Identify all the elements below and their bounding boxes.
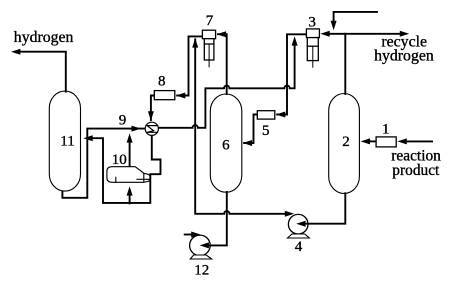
exchanger 5 bbox=[257, 111, 275, 119]
pump 4 bbox=[288, 214, 308, 234]
svg-text:1: 1 bbox=[382, 122, 390, 138]
wire hydrogen offgas from vessel 11 top bbox=[21, 52, 66, 92]
exchanger 8 bbox=[154, 91, 175, 100]
wire condenser 7 junction down to exchanger 8 bbox=[177, 36, 202, 95]
wire exchanger 9 outlet up to condenser 3 junction bbox=[158, 45, 294, 128]
wire makeup hydrogen feed bbox=[334, 12, 377, 22]
svg-text:3: 3 bbox=[308, 14, 316, 30]
svg-text:hydrogen: hydrogen bbox=[374, 47, 434, 64]
wire vessel 6 bottom to pump 12 bbox=[208, 192, 226, 245]
svg-text:2: 2 bbox=[342, 134, 350, 150]
svg-text:7: 7 bbox=[206, 13, 214, 29]
svg-text:5: 5 bbox=[262, 123, 270, 139]
wire exchanger 8 outlet down into exchanger 9 bbox=[151, 96, 155, 121]
svg-text:8: 8 bbox=[158, 74, 166, 90]
wire circulation loop 10 back to vessel 11 bbox=[92, 136, 161, 203]
unit 1 bbox=[376, 137, 396, 147]
svg-text:6: 6 bbox=[222, 137, 230, 153]
wire vessel 11 bottom to exchanger 9 (line 9) bbox=[62, 129, 144, 198]
svg-text:4: 4 bbox=[295, 239, 303, 255]
svg-text:11: 11 bbox=[60, 134, 74, 150]
vessel 11 bbox=[49, 91, 80, 191]
svg-text:hydrogen: hydrogen bbox=[14, 29, 74, 46]
flash unit 10 bbox=[107, 167, 151, 183]
arrow into unit 10 bottom bbox=[129, 196, 131, 204]
wire reaction product feed into unit 1 bbox=[407, 140, 432, 142]
wire exchanger 5 outlet to vessel 6 bbox=[244, 115, 257, 144]
vessel 6 bbox=[210, 94, 242, 192]
condenser 7 bbox=[202, 30, 215, 67]
condenser 3 bbox=[306, 29, 319, 67]
wire recycle hydrogen header bbox=[329, 33, 400, 35]
wire condenser 3 junction down to exchanger 5 bbox=[277, 34, 306, 114]
wire vessel 2 riser bbox=[344, 34, 346, 94]
wire riser to condenser 7 junction and across to pump 4 bbox=[195, 39, 285, 214]
arrow vapor from unit 10 up to line 9 bbox=[129, 143, 131, 167]
svg-text:9: 9 bbox=[119, 113, 127, 129]
pump 12 bbox=[190, 235, 211, 256]
heat exchanger 9 bbox=[145, 122, 158, 135]
wire unit 1 to vessel 2 bbox=[370, 140, 376, 142]
svg-text:product: product bbox=[392, 162, 440, 179]
pump 12 discharge arrow bbox=[185, 234, 193, 236]
wire vessel 6 top to condenser 7 bbox=[218, 34, 227, 94]
vessel 2 bbox=[329, 94, 360, 194]
svg-text:10: 10 bbox=[112, 152, 127, 168]
svg-text:12: 12 bbox=[194, 263, 209, 279]
wire vessel 2 bottom to pump 4 bbox=[305, 193, 345, 224]
